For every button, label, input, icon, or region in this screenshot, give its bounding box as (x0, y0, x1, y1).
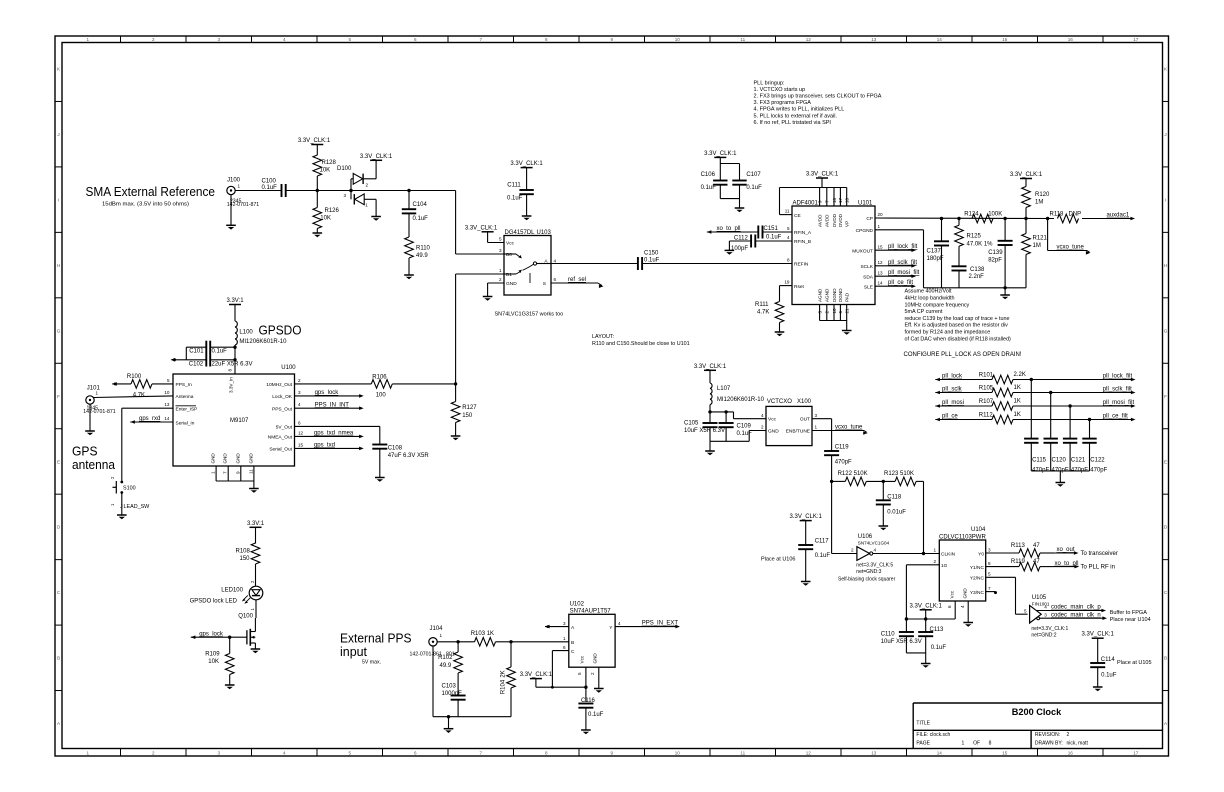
svg-text:vcxo_tune: vcxo_tune (835, 425, 863, 431)
svg-text:R125: R125 (967, 234, 982, 240)
svg-text:1: 1 (440, 633, 443, 638)
svg-text:U106: U106 (858, 534, 873, 540)
capacitor C101 (186, 341, 235, 355)
net pll_ce (942, 414, 958, 420)
note at U105 (1031, 610, 1150, 639)
svg-text:15: 15 (1002, 750, 1008, 755)
svg-text:Lock_OK: Lock_OK (272, 394, 293, 400)
wire mux B1 riser (456, 274, 504, 384)
svg-text:17: 17 (838, 197, 843, 203)
svg-text:0.1uF: 0.1uF (588, 712, 604, 718)
wire U100 GND pins (216, 466, 254, 488)
svg-text:2: 2 (152, 750, 155, 755)
svg-text:9: 9 (235, 471, 240, 474)
svg-text:8: 8 (988, 561, 991, 566)
svg-text:13: 13 (871, 750, 877, 755)
wire loop filter ground rail (924, 286, 1027, 294)
ground at C111 (522, 216, 532, 220)
svg-text:CLKIN: CLKIN (941, 552, 956, 558)
wire ext ref to mux B0 (409, 191, 504, 255)
svg-text:2K: 2K (501, 670, 507, 677)
net pll_sclk_filt (1103, 387, 1132, 393)
svg-text:47uF 6.3V X5R: 47uF 6.3V X5R (388, 453, 430, 459)
svg-text:1: 1 (563, 636, 566, 641)
svg-text:Vcc: Vcc (506, 241, 515, 247)
ground at D100 (371, 217, 381, 221)
svg-text:U105: U105 (1032, 595, 1047, 601)
svg-text:Y1/NC: Y1/NC (970, 565, 985, 571)
resistor R125 (955, 219, 993, 267)
power 3.3V:1 at R108 (247, 521, 265, 544)
svg-text:142-0701-861: 142-0701-861 (410, 652, 442, 658)
svg-text:0.01uF: 0.01uF (887, 509, 906, 515)
svg-text:C119: C119 (835, 445, 850, 451)
svg-text:J101: J101 (87, 386, 101, 392)
wire U106 out to U104 (873, 552, 940, 555)
svg-text:C113: C113 (930, 627, 945, 633)
svg-text:CP: CP (866, 216, 873, 222)
svg-text:1. VCTCXO starts up: 1. VCTCXO starts up (754, 87, 806, 93)
svg-text:3: 3 (1044, 613, 1047, 618)
svg-text:antenna: antenna (72, 457, 116, 472)
svg-text:pll_lock_filt: pll_lock_filt (1103, 374, 1133, 380)
svg-text:6: 6 (414, 750, 417, 755)
wire U102 C to power rail (552, 651, 568, 688)
ground at U104 (963, 623, 973, 627)
svg-text:R121: R121 (1033, 236, 1048, 242)
svg-text:22uF X5R 6.3V: 22uF X5R 6.3V (212, 362, 253, 368)
svg-text:5mA CP current: 5mA CP current (905, 309, 943, 315)
svg-text:13: 13 (878, 270, 884, 275)
svg-text:82pF: 82pF (988, 257, 1002, 263)
inverter U106 SN74LVC1G04 (851, 534, 890, 560)
svg-text:R104: R104 (501, 679, 507, 694)
svg-text:REFIN: REFIN (794, 262, 809, 268)
svg-text:7: 7 (479, 750, 482, 755)
svg-text:13: 13 (871, 37, 877, 42)
ground at U102 (594, 689, 604, 693)
svg-text:ADF4001: ADF4001 (793, 201, 819, 207)
svg-text:10: 10 (675, 750, 681, 755)
svg-text:LED100: LED100 (221, 588, 243, 594)
svg-text:0.1uF: 0.1uF (212, 349, 228, 355)
svg-text:5: 5 (348, 37, 351, 42)
svg-text:8: 8 (545, 37, 548, 42)
svg-text:3.3V_CLK:1: 3.3V_CLK:1 (694, 364, 727, 370)
svg-text:1: 1 (96, 391, 99, 396)
svg-text:4: 4 (761, 413, 764, 418)
svg-text:R105: R105 (979, 385, 994, 391)
svg-text:49.9: 49.9 (440, 663, 452, 669)
svg-text:SDA: SDA (863, 274, 874, 280)
net pll_mosi (942, 400, 964, 406)
wire 5V_Out to C108 (295, 426, 380, 444)
svg-text:FIN1001: FIN1001 (1032, 601, 1050, 606)
svg-text:14: 14 (937, 750, 943, 755)
svg-text:Eff. Kv is adjusted based on t: Eff. Kv is adjusted based on the resisto… (905, 323, 1009, 329)
power 3.3V_CLK:1 at C117 (790, 514, 823, 545)
svg-text:2: 2 (366, 183, 369, 188)
wire U101 VDD rail (780, 188, 847, 215)
svg-text:net=3.3V_CLK:5: net=3.3V_CLK:5 (856, 563, 893, 569)
svg-text:G: G (1164, 328, 1168, 333)
svg-text:PPS_In: PPS_In (176, 382, 193, 388)
svg-text:11: 11 (740, 750, 745, 755)
svg-text:DNP: DNP (1069, 212, 1082, 218)
node R103 R104 (509, 640, 512, 643)
svg-text:3.3V_CLK:1: 3.3V_CLK:1 (1082, 632, 1115, 638)
svg-text:gps_txd: gps_txd (314, 443, 335, 449)
svg-text:10MHz compare frequency: 10MHz compare frequency (905, 302, 970, 308)
svg-text:C100: C100 (262, 179, 277, 185)
svg-text:0.1uF: 0.1uF (1101, 673, 1117, 679)
svg-text:GND: GND (211, 453, 216, 464)
svg-text:B0: B0 (506, 252, 512, 258)
svg-text:3.3V_CLK:1: 3.3V_CLK:1 (298, 138, 331, 144)
svg-text:10K: 10K (208, 659, 219, 665)
svg-text:L107: L107 (717, 386, 731, 392)
svg-text:2: 2 (761, 425, 764, 430)
svg-text:C103: C103 (442, 684, 457, 690)
resistor R124 (964, 212, 1002, 223)
svg-text:5: 5 (499, 237, 502, 242)
svg-text:2: 2 (933, 559, 936, 564)
svg-text:0.1uF: 0.1uF (737, 431, 753, 437)
svg-text:2: 2 (499, 277, 502, 282)
svg-text:17: 17 (1133, 37, 1139, 42)
svg-text:Serial_Out: Serial_Out (269, 447, 292, 453)
ground at U101 (842, 331, 852, 335)
net pll_ce_filt at SLE (875, 280, 916, 288)
net pll_lock (942, 374, 963, 380)
ground at C117 (801, 582, 811, 586)
connector J100 (227, 178, 259, 209)
wire C110 C113 rail (906, 653, 925, 663)
svg-text:OUT: OUT (800, 417, 810, 423)
svg-text:15dBm max. (3.5V into 50 ohms): 15dBm max. (3.5V into 50 ohms) (102, 202, 189, 208)
svg-text:0.1uF: 0.1uF (644, 258, 660, 264)
capacitor C112 (729, 235, 792, 252)
svg-text:3: 3 (815, 413, 818, 418)
svg-text:16: 16 (1068, 37, 1074, 42)
ground at J101 (85, 404, 95, 435)
svg-text:3.3V:1: 3.3V:1 (247, 521, 265, 527)
svg-text:15: 15 (298, 442, 304, 447)
svg-text:5: 5 (167, 378, 170, 383)
svg-text:10: 10 (164, 390, 170, 395)
svg-text:3.3V_CLK:1: 3.3V_CLK:1 (806, 172, 839, 178)
capacitor C103 (442, 684, 466, 717)
ground at C110 C113 (921, 664, 931, 668)
svg-text:I: I (58, 197, 59, 202)
svg-text:10K: 10K (320, 216, 331, 222)
svg-text:R118: R118 (1050, 212, 1065, 218)
svg-text:4: 4 (283, 37, 286, 42)
resistor R128 (313, 152, 337, 191)
svg-text:C111: C111 (507, 183, 521, 189)
svg-text:12: 12 (878, 260, 884, 265)
wire J104 shield to rail (432, 646, 434, 717)
svg-text:3: 3 (217, 37, 220, 42)
svg-text:0.1uF: 0.1uF (262, 185, 278, 191)
svg-text:R100: R100 (127, 374, 142, 380)
ground at R127 (451, 436, 461, 440)
svg-text:7: 7 (988, 586, 991, 591)
note: LAYOUT text (592, 334, 690, 347)
ground at C107 (735, 208, 745, 212)
svg-text:GND: GND (963, 588, 968, 599)
svg-text:GND: GND (768, 429, 779, 435)
svg-text:pll_ce_filt: pll_ce_filt (1103, 414, 1128, 420)
svg-text:3.3V_CLK:1: 3.3V_CLK:1 (360, 154, 393, 160)
svg-text:18: 18 (845, 197, 850, 203)
svg-text:1: 1 (365, 203, 368, 208)
svg-text:2345: 2345 (230, 198, 242, 204)
capacitor C113 (918, 619, 946, 653)
svg-text:1K: 1K (1014, 412, 1021, 418)
svg-text:PAGE: PAGE (916, 741, 930, 747)
ground at C118 (879, 526, 889, 530)
svg-text:47.0K 1%: 47.0K 1% (967, 241, 994, 247)
resistor R111 (755, 286, 792, 332)
capacitor C150 (638, 251, 660, 271)
note: External PPS input heading (340, 631, 412, 666)
resistor R102 (438, 642, 462, 696)
svg-text:C116: C116 (581, 698, 596, 704)
svg-text:13: 13 (164, 402, 170, 407)
capacitor C102 (186, 354, 252, 368)
svg-text:C104: C104 (413, 202, 428, 208)
net vcxo_tune at X100 (812, 425, 868, 435)
svg-text:7: 7 (825, 200, 830, 203)
svg-text:Buffer to FPGA: Buffer to FPGA (1110, 610, 1148, 616)
svg-text:DGND: DGND (838, 288, 843, 302)
svg-text:180pF: 180pF (927, 256, 944, 262)
wire L100 to U100 (233, 345, 236, 374)
svg-text:5V_Out: 5V_Out (276, 425, 293, 431)
svg-text:Enter_ISP: Enter_ISP (176, 407, 198, 413)
net xo_to_pll out (1053, 561, 1115, 571)
net pll_ce_filt (1103, 414, 1128, 420)
svg-text:R128: R128 (322, 160, 337, 166)
capacitor C114 (1090, 657, 1151, 687)
net PPS_IN_INT at PPS_Out (295, 402, 364, 410)
svg-text:Antenna: Antenna (176, 394, 194, 400)
svg-text:gps_txd_nmea: gps_txd_nmea (314, 431, 354, 437)
svg-text:5. PLL locks to external ref i: 5. PLL locks to external ref if avail. (754, 113, 838, 119)
capacitor C138 (952, 266, 986, 288)
multiplexer U103 DG4157DL (499, 230, 557, 295)
ground at SPI filter caps (1056, 483, 1066, 487)
svg-text:49.9: 49.9 (416, 253, 428, 259)
net gps_lock at Q100 gate (191, 631, 247, 639)
wire C100 to node (286, 189, 351, 192)
svg-text:3: 3 (499, 248, 502, 253)
svg-text:vcxo_tune: vcxo_tune (1057, 245, 1085, 251)
svg-text:R119: R119 (1011, 559, 1026, 565)
wire U101 GND pins (820, 305, 847, 331)
svg-text:VCTCXO: VCTCXO (767, 399, 792, 405)
svg-text:pll_ce_filt: pll_ce_filt (888, 280, 913, 286)
svg-text:Vcc: Vcc (580, 655, 585, 663)
svg-text:PAD: PAD (845, 292, 850, 302)
capacitor C151 (758, 226, 792, 241)
title block (913, 703, 1162, 749)
connector J104 (410, 626, 472, 658)
net xo_to_pll at RFIN_A (707, 226, 759, 234)
power 3.3V_CLK:1 at C106 (704, 151, 737, 181)
svg-text:R106: R106 (372, 374, 387, 380)
svg-text:U104: U104 (971, 527, 986, 533)
capacitor C115 (1024, 378, 1049, 474)
svg-text:To PLL RF in: To PLL RF in (1081, 564, 1115, 570)
svg-text:C101: C101 (189, 349, 204, 355)
svg-text:C120: C120 (1052, 458, 1067, 464)
power 3.3V_CLK:1 at U101 (806, 172, 839, 188)
svg-text:C106: C106 (701, 172, 716, 178)
wire U103 GND pin (488, 283, 504, 296)
svg-text:4: 4 (787, 235, 790, 240)
capacitor C119 (824, 445, 852, 482)
svg-text:SN74LVC1G04: SN74LVC1G04 (858, 541, 890, 546)
svg-text:MUXOUT: MUXOUT (852, 248, 873, 254)
wire X100 GND (710, 431, 766, 451)
net xo_out (1054, 547, 1118, 557)
svg-text:GND: GND (248, 453, 253, 464)
svg-text:pll_lock: pll_lock (942, 374, 963, 380)
svg-text:U103: U103 (537, 230, 552, 236)
capacitor C111 (507, 183, 534, 216)
svg-text:C115: C115 (1032, 458, 1047, 464)
resistor R105 (935, 385, 1135, 397)
note: GPSDO heading (259, 323, 302, 338)
svg-text:C108: C108 (388, 446, 403, 452)
ground at C116 (581, 730, 591, 734)
svg-text:C121: C121 (1071, 458, 1086, 464)
svg-text:9: 9 (610, 750, 613, 755)
ground at R110 (404, 275, 414, 279)
svg-text:DG4157DL: DG4157DL (505, 230, 536, 236)
wire J100 to C100 (235, 190, 281, 192)
svg-text:8: 8 (228, 369, 233, 372)
svg-text:100: 100 (376, 392, 387, 398)
svg-text:CE: CE (794, 213, 801, 219)
note: PLL bringup text (754, 80, 882, 126)
svg-text:MI1206K601R-10: MI1206K601R-10 (717, 397, 765, 403)
ground at loop filter (1000, 295, 1010, 299)
svg-text:5V max.: 5V max. (362, 660, 381, 666)
power 3.3V:1 at L100 (226, 298, 244, 321)
wire C106 C107 ground rail (720, 199, 739, 208)
svg-text:Rset: Rset (794, 284, 805, 290)
svg-text:15: 15 (878, 244, 884, 249)
svg-text:16: 16 (832, 197, 837, 203)
svg-text:G: G (57, 328, 61, 333)
svg-text:ref_sel: ref_sel (568, 277, 586, 283)
svg-text:C151: C151 (764, 226, 779, 232)
capacitor C118 (876, 481, 907, 525)
power 3.3V_CLK:1 at C114 (1082, 632, 1115, 663)
resistor R103 (471, 631, 511, 646)
svg-text:DGND: DGND (832, 288, 837, 302)
net pll_mosi_filt at SDA (875, 270, 920, 278)
svg-text:12: 12 (806, 37, 812, 42)
svg-text:C137: C137 (927, 249, 942, 255)
svg-text:C118: C118 (887, 495, 902, 501)
svg-text:C112: C112 (734, 235, 749, 241)
net vcxo_tune from loop filter (1048, 219, 1091, 255)
svg-text:Place at U105: Place at U105 (1117, 660, 1152, 666)
svg-text:C139: C139 (988, 250, 1003, 256)
wire mux A to C150 (551, 263, 638, 265)
wire U104 Vcc rail (905, 601, 956, 621)
svg-text:0.1uF: 0.1uF (746, 185, 762, 191)
svg-text:Q100: Q100 (238, 614, 253, 620)
svg-text:pll_sclk: pll_sclk (942, 387, 963, 393)
svg-text:1: 1 (211, 471, 216, 474)
svg-text:1: 1 (238, 184, 241, 189)
wire SPI filter cap rail (1031, 471, 1089, 482)
capacitor C121 (1063, 404, 1088, 473)
capacitor C109 (719, 412, 753, 441)
net auxdac1 (1082, 213, 1135, 221)
svg-text:gps_lock: gps_lock (199, 631, 224, 637)
svg-text:DVDD: DVDD (832, 213, 837, 227)
svg-text:1M: 1M (1033, 243, 1041, 249)
svg-text:codec_main_clk_n: codec_main_clk_n (1051, 612, 1101, 618)
svg-text:PPS_Out: PPS_Out (272, 407, 293, 413)
svg-text:gps_rxd: gps_rxd (139, 416, 160, 422)
oscillator X100 VCTCXO (761, 399, 818, 446)
svg-text:3.3V_CLK:1: 3.3V_CLK:1 (520, 672, 553, 678)
svg-text:3.3V_CLK:1: 3.3V_CLK:1 (790, 514, 823, 520)
wire Enter_ISP to S100 (122, 408, 173, 479)
wire R103 to U102 B (511, 641, 569, 643)
svg-text:15: 15 (1002, 37, 1008, 42)
svg-text:1: 1 (499, 268, 502, 273)
resistor R100 (112, 374, 173, 398)
svg-text:E: E (57, 459, 60, 464)
ground at R111 (775, 332, 785, 336)
resistor R127 (451, 384, 477, 436)
svg-text:net=3.3V_CLK:1: net=3.3V_CLK:1 (1031, 626, 1068, 632)
wire U104 1G (906, 565, 939, 619)
node J104 R102 (456, 640, 459, 643)
svg-text:R102: R102 (438, 655, 453, 661)
svg-text:R120: R120 (1035, 192, 1050, 198)
svg-text:0.1uF: 0.1uF (701, 185, 717, 191)
svg-text:10MHz_Out: 10MHz_Out (266, 382, 292, 388)
svg-text:4.7K: 4.7K (133, 392, 145, 398)
transistor Q100 NMOS (238, 614, 255, 649)
net PPS_IN_EXT (615, 621, 680, 629)
svg-text:of Cat DAC when disabled (if R: of Cat DAC when disabled (if R118 instal… (905, 336, 1011, 342)
svg-text:E: E (1164, 459, 1167, 464)
node 10MHz junction (454, 382, 457, 385)
svg-text:CONFIGURE PLL_LOCK AS OPEN DRA: CONFIGURE PLL_LOCK AS OPEN DRAIN! (904, 352, 1022, 358)
svg-text:GPSDO lock LED: GPSDO lock LED (190, 599, 238, 605)
svg-text:reduce C139 by the load cap of: reduce C139 by the load cap of trace + t… (905, 316, 1010, 322)
capacitor C105 (684, 421, 725, 442)
ground at C112 (725, 250, 735, 254)
svg-text:4. FPGA writes to PLL, initial: 4. FPGA writes to PLL, initializes PLL (754, 107, 845, 113)
net pll_sclk (942, 387, 963, 393)
inductor L100 (235, 321, 287, 345)
capacitor C106 (701, 172, 728, 199)
svg-text:5: 5 (348, 750, 351, 755)
svg-text:3.3V_CLK:1: 3.3V_CLK:1 (510, 161, 543, 167)
resistor R119 (986, 559, 1053, 571)
